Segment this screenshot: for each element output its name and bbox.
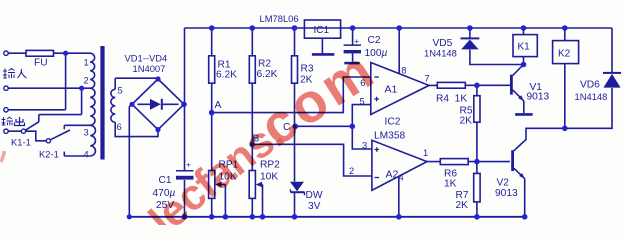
svg-text:1N4148: 1N4148	[424, 48, 457, 59]
svg-text:K1-1: K1-1	[11, 136, 31, 147]
svg-text:7: 7	[425, 74, 430, 84]
svg-text:A2: A2	[386, 169, 399, 181]
svg-text:6.2K: 6.2K	[257, 69, 278, 80]
svg-text:LM358: LM358	[374, 131, 405, 142]
svg-text:A1: A1	[385, 84, 398, 96]
svg-text:R2: R2	[258, 59, 271, 70]
svg-text:2: 2	[349, 166, 354, 176]
svg-text:100µ: 100µ	[365, 48, 388, 59]
svg-text:A: A	[215, 100, 222, 111]
svg-text:1: 1	[84, 58, 89, 68]
svg-text:1: 1	[423, 148, 428, 158]
svg-text:C2: C2	[368, 35, 381, 46]
svg-text:3: 3	[362, 141, 367, 151]
svg-text:1N4148: 1N4148	[575, 91, 608, 102]
svg-text:3V: 3V	[308, 201, 321, 212]
svg-text:6.2K: 6.2K	[216, 70, 237, 81]
svg-text:3: 3	[84, 128, 89, 138]
svg-text:DW: DW	[306, 190, 323, 201]
svg-text:LM78L06: LM78L06	[260, 13, 299, 24]
svg-text:8: 8	[401, 66, 406, 76]
svg-text:VD1--VD4: VD1--VD4	[125, 53, 168, 64]
svg-text:5: 5	[118, 86, 123, 96]
svg-text:4: 4	[84, 150, 89, 160]
svg-text:9013: 9013	[527, 91, 550, 102]
svg-text:R4 1K: R4 1K	[436, 94, 467, 105]
svg-text:1K: 1K	[444, 179, 457, 190]
svg-text:V2: V2	[497, 177, 510, 188]
svg-text:6: 6	[117, 122, 122, 132]
svg-text:10K: 10K	[260, 172, 278, 183]
svg-text:K2-1: K2-1	[39, 149, 59, 160]
svg-text:FU: FU	[34, 58, 48, 69]
svg-text:K2: K2	[558, 48, 571, 59]
svg-text:2: 2	[84, 76, 89, 86]
svg-text:2K: 2K	[456, 200, 469, 211]
svg-text:IC1: IC1	[314, 25, 330, 36]
svg-text:K1: K1	[518, 42, 531, 53]
svg-text:1N4007: 1N4007	[133, 63, 166, 74]
svg-text:VD6: VD6	[580, 80, 600, 91]
svg-text:IC2: IC2	[385, 117, 401, 128]
svg-text:9013: 9013	[495, 188, 518, 199]
svg-text:2K: 2K	[460, 116, 473, 127]
svg-text:4: 4	[399, 173, 404, 183]
